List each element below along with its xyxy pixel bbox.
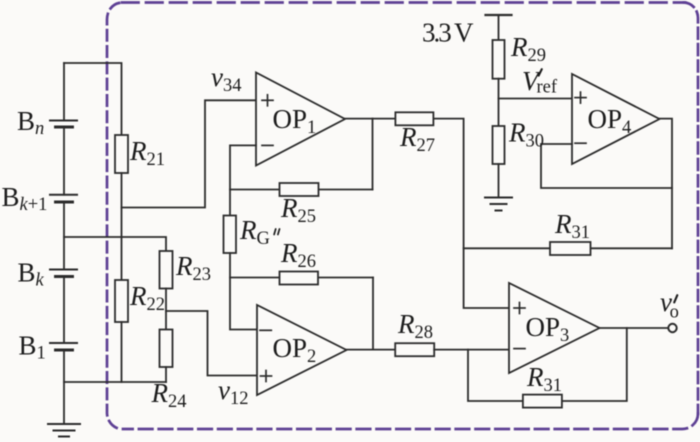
node vo output terminal [668,324,676,332]
wire: OP4 unity feedback loop [541,144,672,188]
ground (reference divider) [485,198,512,211]
wire: battery column Bk+1 to Bk [63,202,65,270]
wire: R31 upper row [464,247,672,249]
wire: R22 bottom to bottom rail [121,322,123,382]
resistor R28 [395,343,434,356]
battery Bk+1 [50,195,77,202]
dashed boundary box: bottom edge [123,414,698,430]
resistor R22 [115,280,128,322]
wire: R21 bottom to R22 top [121,173,123,280]
dashed boundary box: left edge [107,3,121,429]
resistor R27 [395,112,433,125]
resistor R29 [493,40,505,79]
wire: R25 feedback row [230,189,373,191]
battery Bn [50,121,77,128]
wire: v34 tap from R21/R22 node [122,100,257,207]
resistor RG'' [224,216,237,254]
resistor R31 lower [523,395,562,408]
wire: RG top lead [229,190,231,216]
wire: OP2 output row to R28 [347,349,396,351]
dashed boundary box: top edge [122,1,685,4]
wire: lower R31 to OP3 output [562,328,627,401]
wire: OP4 output down to R31 row [660,119,673,249]
wire: 3.3V to R29 [498,15,500,40]
wire: R24 bottom to bottom rail [165,367,167,382]
resistor R25 [280,183,319,196]
op-amp OP3 [509,283,600,373]
op-amp OP4 [572,74,660,164]
wire: bottom rail [64,381,166,383]
resistor R30 [493,126,505,164]
wire: R26 feedback row [230,277,373,279]
resistor R26 [280,272,319,285]
wire: R28 to OP3 inverting input [434,349,509,351]
op-amp OP2 [257,305,347,395]
wire: RG bottom to OP2 inverting input [230,253,257,330]
wire: tap between Bk+1 and Bk to R23 [64,237,166,251]
wire: R30 to ground [498,164,500,198]
wire: R23 bottom to R24 top [165,289,167,330]
wire: OP1 output row to R27 [345,118,395,120]
ground (battery stack) [48,424,80,437]
wire: v12 tap to OP2 plus input [166,311,257,376]
op-amp OP1 [256,73,345,166]
wire: battery top to R21 top [64,63,122,135]
wire: R29 to R30, Vref node [498,79,500,126]
wire: OP1 feedback drop [372,119,374,190]
power 3.3V bar [486,14,512,16]
svg-text:3.3 V: 3.3 V [422,18,474,48]
wire: OP1 inverting input [230,145,256,189]
dashed boundary box: right edge [684,3,698,415]
wire: Vref to OP4 plus input [499,98,573,100]
wire: battery column B1 to ground [63,350,65,424]
resistor R23 [160,251,173,289]
wire: OP3 output [600,327,669,329]
wire: R27 to right column [433,119,509,308]
wire: OP3 feedback lower loop [468,350,523,401]
resistor R31 upper [550,242,591,255]
wire: OP2 feedback rise [372,278,374,350]
wire: battery column segment above Bn [63,63,65,121]
wire: battery column Bn to Bk+1 [63,127,65,195]
battery B1 [50,343,77,350]
wire: battery column Bk to B1 [63,277,65,344]
battery Bk [50,270,77,277]
resistor R21 [115,135,128,173]
resistor R24 [160,330,173,368]
